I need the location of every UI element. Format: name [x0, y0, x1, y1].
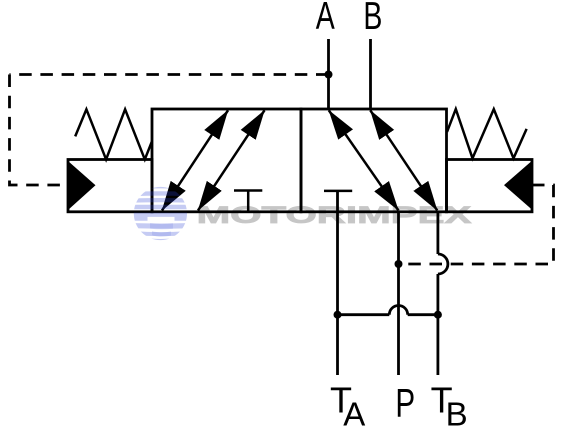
svg-text:TA: TA [330, 380, 365, 428]
spring left [75, 109, 152, 159]
pilot box left [68, 160, 152, 212]
blocked port symbol right box (TA) [324, 190, 352, 193]
port line TB with hop over pilot line [436, 212, 439, 375]
watermark text MOTORIMPEX (painted under the diagram) [197, 202, 472, 229]
svg-text:TB: TB [431, 380, 468, 428]
junction dot on P line [395, 260, 403, 268]
flow arrow right box 2: B to TB [370, 110, 437, 210]
pilot line dashed left: horizontal run from A tap [10, 73, 329, 76]
port line TA [336, 191, 339, 375]
valve left position box [152, 109, 301, 212]
svg-text:P: P [395, 381, 415, 425]
port line P [397, 212, 400, 375]
hop arc TB over pilot line [438, 254, 448, 274]
valve right position box [301, 109, 447, 212]
port line A [327, 39, 330, 109]
watermark globe logo [130, 185, 191, 242]
flow arrow left box 2 [198, 110, 265, 210]
svg-text:B: B [363, 0, 382, 38]
port line B [369, 39, 372, 109]
flow arrow left box 1 [162, 110, 228, 210]
pilot line dashed right: right pilot to P tap [399, 185, 554, 264]
svg-text:A: A [316, 0, 335, 38]
watermark globe darker segments [150, 223, 173, 237]
label B [363, 0, 382, 38]
label P [395, 381, 415, 425]
svg-text:MOTORIMPEX: MOTORIMPEX [197, 202, 472, 229]
label A [316, 0, 335, 38]
junction dot TA [334, 311, 342, 319]
tank connector line TA-TB with hop over P [338, 313, 438, 316]
pilot box right [447, 160, 533, 212]
pilot actuator triangle left [68, 161, 96, 210]
pilot line dashed left: down leg and entry to left pilot [10, 75, 69, 186]
flow arrow right box 1: A to P [329, 110, 399, 210]
pilot actuator triangle right [504, 161, 532, 210]
blocked port symbol left box [234, 191, 262, 212]
hop arc over P [389, 306, 407, 315]
spring right [447, 109, 527, 158]
junction dot on A line [325, 71, 333, 79]
junction dot TB [434, 311, 442, 319]
